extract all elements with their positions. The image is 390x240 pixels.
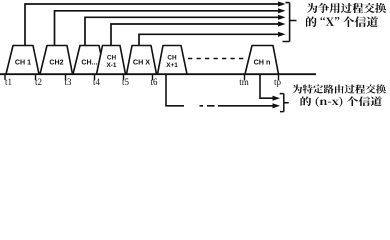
dashed wire (omitted channels) [188, 58, 244, 60]
channel pulse trapezoid CH2 [40, 46, 73, 75]
svg-text:CH2: CH2 [49, 59, 63, 67]
tick tm [244, 74, 246, 80]
svg-text:t5: t5 [122, 77, 130, 87]
svg-text:tm: tm [239, 77, 249, 87]
svg-text:tp: tp [274, 77, 282, 87]
brace grouping (n-x) channels [280, 94, 289, 112]
svg-text:X+1: X+1 [166, 62, 178, 69]
channel pulse trapezoid CH X+1 [158, 46, 188, 75]
wire from CH... up to arrow [85, 17, 278, 46]
wire from CH X-1 up to arrow [111, 24, 278, 46]
channel pulse trapezoid CH X [127, 46, 157, 75]
svg-text:CH X: CH X [133, 58, 150, 67]
tick tp [278, 74, 280, 80]
svg-text:t3: t3 [64, 77, 72, 87]
svg-text:CH 1: CH 1 [15, 59, 31, 67]
svg-text:t1: t1 [5, 77, 12, 87]
wire from axis below CH n down and right [260, 74, 273, 98]
arrowhead lower-left wire [273, 103, 281, 108]
channel pulse trapezoid CH... [73, 46, 105, 75]
svg-text:CH...: CH... [81, 59, 97, 67]
svg-text:CH n: CH n [254, 58, 271, 67]
arrowhead CH X-1 wire [278, 21, 286, 26]
tick t5 [123, 74, 125, 80]
text: (n-x) channels for fixed-routing switching, line 2 [301, 97, 382, 108]
wire from CH X up to arrow [139, 34, 278, 46]
text: X channels for contention-process switching, line 1 [307, 3, 386, 13]
arrowhead CH X wire [278, 32, 286, 37]
channel pulse trapezoid CH n [245, 46, 279, 75]
time axis baseline [0, 73, 316, 75]
svg-text:CH: CH [167, 55, 177, 62]
svg-text:t2: t2 [35, 77, 42, 87]
text: X channels for contention-process switching, line 2 [306, 17, 378, 28]
tick t1 [4, 74, 6, 80]
svg-text:t4: t4 [93, 77, 101, 87]
wire from CH2 up to arrow [55, 11, 279, 46]
tick t6 [152, 74, 154, 80]
channel pulse trapezoid CH X-1 [97, 46, 126, 75]
arrowhead CH n wire [273, 96, 281, 101]
arrowhead CH1 wire [278, 1, 286, 6]
wire from axis below CH X+1 down and right (dash-dot) [166, 74, 184, 106]
arrowhead CH2 wire [278, 8, 286, 13]
text: (n-x) channels for fixed-routing switching, line 1 [293, 85, 386, 94]
wire from CH1 up to arrow [25, 4, 278, 46]
svg-text:X-1: X-1 [107, 62, 117, 69]
svg-text:t6: t6 [150, 77, 158, 87]
arrowhead CH... wire [278, 15, 286, 20]
channel pulse trapezoid CH1 [6, 46, 39, 75]
tick t2 [35, 74, 37, 80]
svg-text:CH: CH [107, 55, 117, 62]
tick t4 [94, 74, 96, 80]
brace grouping X channels [283, 3, 297, 42]
tick t3 [65, 74, 67, 80]
